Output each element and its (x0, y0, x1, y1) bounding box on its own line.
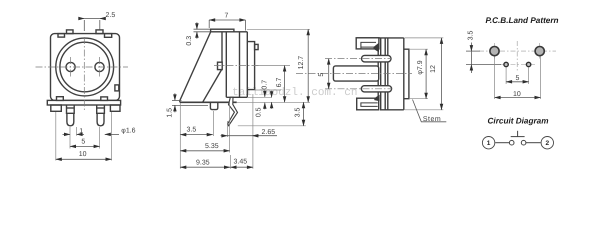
view3 top hook terminal (356, 38, 379, 49)
view2 barrel (247, 42, 254, 90)
view1 dim 10 (56, 158, 112, 160)
view3 dim phi7.9 (425, 49, 427, 98)
view2 main diagonal and left corner (180, 32, 211, 102)
view2 dim 1.5 (172, 93, 208, 112)
view3 dim 12 (441, 38, 443, 110)
view2 inner vertical a (225, 32, 227, 98)
view3 ribs (377, 38, 379, 110)
view2 stem hook (228, 97, 238, 125)
view2 top bar (211, 29, 234, 32)
view2 dim 3.45 (231, 166, 253, 168)
view3 upper pill terminal (362, 55, 392, 62)
view1 flange bump right (101, 97, 108, 101)
svg-text:P.C.B.Land Pattern: P.C.B.Land Pattern (485, 16, 558, 25)
view2 dim 9.35 (180, 166, 230, 168)
svg-text:3.45: 3.45 (234, 159, 248, 166)
svg-text:1: 1 (79, 128, 83, 135)
pcb centerlines (479, 41, 556, 71)
view2 (180, 29, 258, 126)
pcb pad small left (504, 62, 508, 66)
view2 dim 0.5 (264, 90, 266, 109)
svg-text:9.35: 9.35 (196, 159, 210, 166)
view2 dim 2.65 (221, 135, 278, 137)
view1 pin hole right (95, 62, 104, 71)
pcb dim 5 (506, 81, 528, 83)
pcb extension lines (495, 57, 541, 100)
svg-text:φ1.6: φ1.6 (121, 127, 135, 134)
view2 barrel bump (255, 44, 259, 49)
view1 foot left (51, 105, 62, 111)
circuit terminal 1 (482, 137, 494, 149)
svg-text:Circuit Diagram: Circuit Diagram (488, 116, 549, 125)
view1 flange (47, 100, 120, 105)
svg-text:5: 5 (318, 73, 325, 77)
view2 dim 5.35 (180, 150, 229, 152)
svg-text:0.5: 0.5 (255, 107, 262, 117)
circuit button bar (511, 136, 525, 138)
view3 (333, 38, 409, 110)
view2 bottom extension lines (180, 94, 253, 169)
circuit contact right (521, 140, 526, 145)
svg-text:3.5: 3.5 (468, 31, 475, 41)
circuit button stem (517, 131, 519, 137)
view2 front edge (221, 32, 223, 62)
view3 dim 5 (328, 59, 330, 89)
view2 right extension lines (237, 29, 310, 126)
svg-text:0.7: 0.7 (262, 80, 269, 90)
svg-text:3.5: 3.5 (295, 108, 302, 118)
view1 top corner step (105, 34, 112, 38)
view2 dim 0.3 (194, 22, 211, 38)
view1 body (51, 34, 120, 101)
view2 dim 7 (209, 20, 245, 31)
view2 top edge right of bar (234, 31, 247, 33)
view1 centerlines (36, 37, 129, 110)
view3 right extension lines (405, 38, 444, 110)
view1 dim 5 (70, 145, 100, 147)
view3 top hook wedge (374, 43, 379, 53)
view2 second diagonal (203, 70, 222, 103)
view1 top tab up-right (96, 30, 103, 34)
view3 bottom hook wedge (374, 95, 379, 102)
circuit wire left (495, 142, 509, 144)
view2 centerline (214, 65, 259, 67)
view2 dim 3.5 (180, 134, 212, 136)
view3 barrel (404, 49, 409, 98)
view1 leg right (97, 105, 105, 113)
pcb dim 3.5 (466, 43, 501, 74)
svg-text:0.3: 0.3 (186, 36, 193, 46)
view2 body bottom (226, 96, 247, 98)
pcb pad large left (490, 47, 499, 56)
view1 right edge inner notch (115, 85, 119, 91)
svg-text:2.5: 2.5 (106, 12, 116, 19)
view2 right edge (246, 32, 248, 98)
svg-text:10: 10 (513, 91, 521, 98)
svg-text:12.7: 12.7 (298, 56, 305, 70)
view2 leg stub (210, 102, 217, 109)
view3 bottom hook terminal (357, 98, 379, 110)
view2 inner vertical b (239, 32, 241, 98)
view3 centerlines (296, 59, 412, 89)
view1 inner circle (60, 42, 110, 92)
view2 front bump (218, 62, 223, 69)
svg-text:1.5: 1.5 (167, 108, 174, 118)
view1 dim 1 (63, 133, 85, 135)
pcb pad small right (526, 62, 530, 66)
view2 base bottom (180, 101, 237, 103)
view1 foot right (110, 105, 120, 111)
view1 bottom extension lines (56, 112, 112, 161)
svg-text:3.5: 3.5 (187, 127, 197, 134)
circuit contact left (509, 140, 514, 145)
view3 blade terminal (333, 66, 378, 81)
svg-text:5.35: 5.35 (205, 143, 219, 150)
view3 bottom edge (380, 109, 404, 111)
view2 dim 0.7 (271, 91, 273, 109)
svg-text:10: 10 (79, 151, 87, 158)
svg-text:7: 7 (225, 13, 229, 20)
svg-text:φ7.9: φ7.9 (417, 60, 424, 74)
view3 stem leader (413, 100, 447, 122)
view3 body right edge (403, 38, 405, 110)
svg-text:6.7: 6.7 (276, 78, 283, 88)
view3 lower pill terminal (361, 86, 391, 92)
svg-text:Stem: Stem (423, 116, 441, 123)
view1 flange bump left (57, 97, 64, 101)
view1 dim 2.5 (79, 19, 105, 32)
view1 top tab up-left (67, 30, 74, 34)
circuit wire right (526, 142, 541, 144)
svg-text:2: 2 (545, 140, 549, 147)
svg-text:5: 5 (81, 139, 85, 146)
view2 dim 6.7 (284, 66, 286, 103)
pcb dim 10 (495, 97, 541, 99)
view1 top tab inner-left (58, 34, 65, 38)
svg-text:12: 12 (430, 65, 437, 73)
svg-text:2.65: 2.65 (262, 129, 276, 136)
pcb pad large right (535, 47, 544, 56)
view2 dim 12.7 and 3.5 stacked (304, 29, 309, 126)
svg-text:5: 5 (516, 75, 520, 82)
view1 dim phi1.6 leader (105, 133, 119, 135)
view3 top edge (357, 37, 404, 39)
view1 outer circle (56, 38, 114, 96)
circuit terminal 2 (541, 137, 553, 149)
svg-text:1: 1 (487, 140, 491, 147)
view1 pin hole left (66, 62, 75, 71)
view1 leg left (67, 105, 75, 113)
